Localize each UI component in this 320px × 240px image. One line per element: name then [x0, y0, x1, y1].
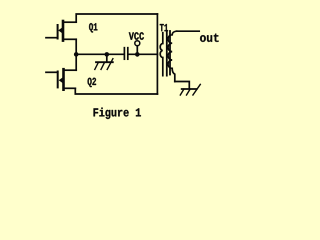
capacitor C1 left plate — [123, 48, 125, 60]
ground G2 secondary return — [180, 84, 200, 95]
wire: Q2 gate lead — [46, 71, 58, 73]
VCC terminal circle — [135, 41, 140, 46]
wire: secondary bottom lead — [175, 82, 190, 89]
ground G1 below mid rail — [95, 59, 113, 70]
wire: Q1 source lead — [63, 38, 76, 40]
wire: mid vertical Q1 source to Q2 drain — [75, 39, 77, 70]
Q1 channel bar — [62, 21, 65, 41]
Q2 gate bar — [57, 72, 59, 88]
label Q1 — [89, 23, 97, 32]
Q1 body arrow pointing left — [58, 27, 62, 33]
label VCC — [129, 32, 144, 40]
wire: Q1 drain lead — [63, 21, 76, 23]
junction dot: Q1 source / Q2 drain node — [74, 52, 79, 57]
Q2 channel bar — [62, 69, 65, 90]
wire: capacitor right plate to T1 center tap — [129, 53, 158, 55]
transformer T1 primary winding — [160, 33, 163, 76]
wire: T1 primary lead vertical — [156, 14, 158, 94]
wire: ground stub below mid rail — [106, 54, 108, 61]
capacitor C1 right plate — [127, 48, 129, 60]
wire: secondary top lead to out — [177, 30, 200, 32]
junction dot: ground tap node — [105, 52, 110, 57]
wire: mid rail to capacitor left plate — [76, 53, 123, 55]
label Figure 1 — [94, 108, 141, 119]
transformer T1 secondary winding — [168, 31, 177, 81]
label Q2 — [88, 78, 96, 87]
wire: top rail from Q1 drain riser to T1 primary — [76, 14, 157, 22]
wire: Q1 gate lead — [46, 37, 58, 39]
wire: bottom rail from Q2 source to T1 primary — [75, 88, 157, 94]
transistor Q2 — [46, 69, 76, 90]
Q1 gate bar — [57, 25, 59, 39]
transistor Q1 — [46, 21, 76, 41]
label T1 — [160, 24, 168, 31]
label out — [200, 34, 218, 42]
wire: Q2 source lead — [64, 87, 76, 89]
wire: VCC terminal stub — [136, 46, 138, 55]
wire: Q2 drain lead — [64, 69, 77, 71]
transformer T1 core line left — [166, 31, 168, 76]
junction dot: VCC tap node — [135, 52, 140, 57]
transformer T1 core line right — [169, 31, 171, 75]
Q2 body arrow pointing left — [59, 77, 63, 83]
